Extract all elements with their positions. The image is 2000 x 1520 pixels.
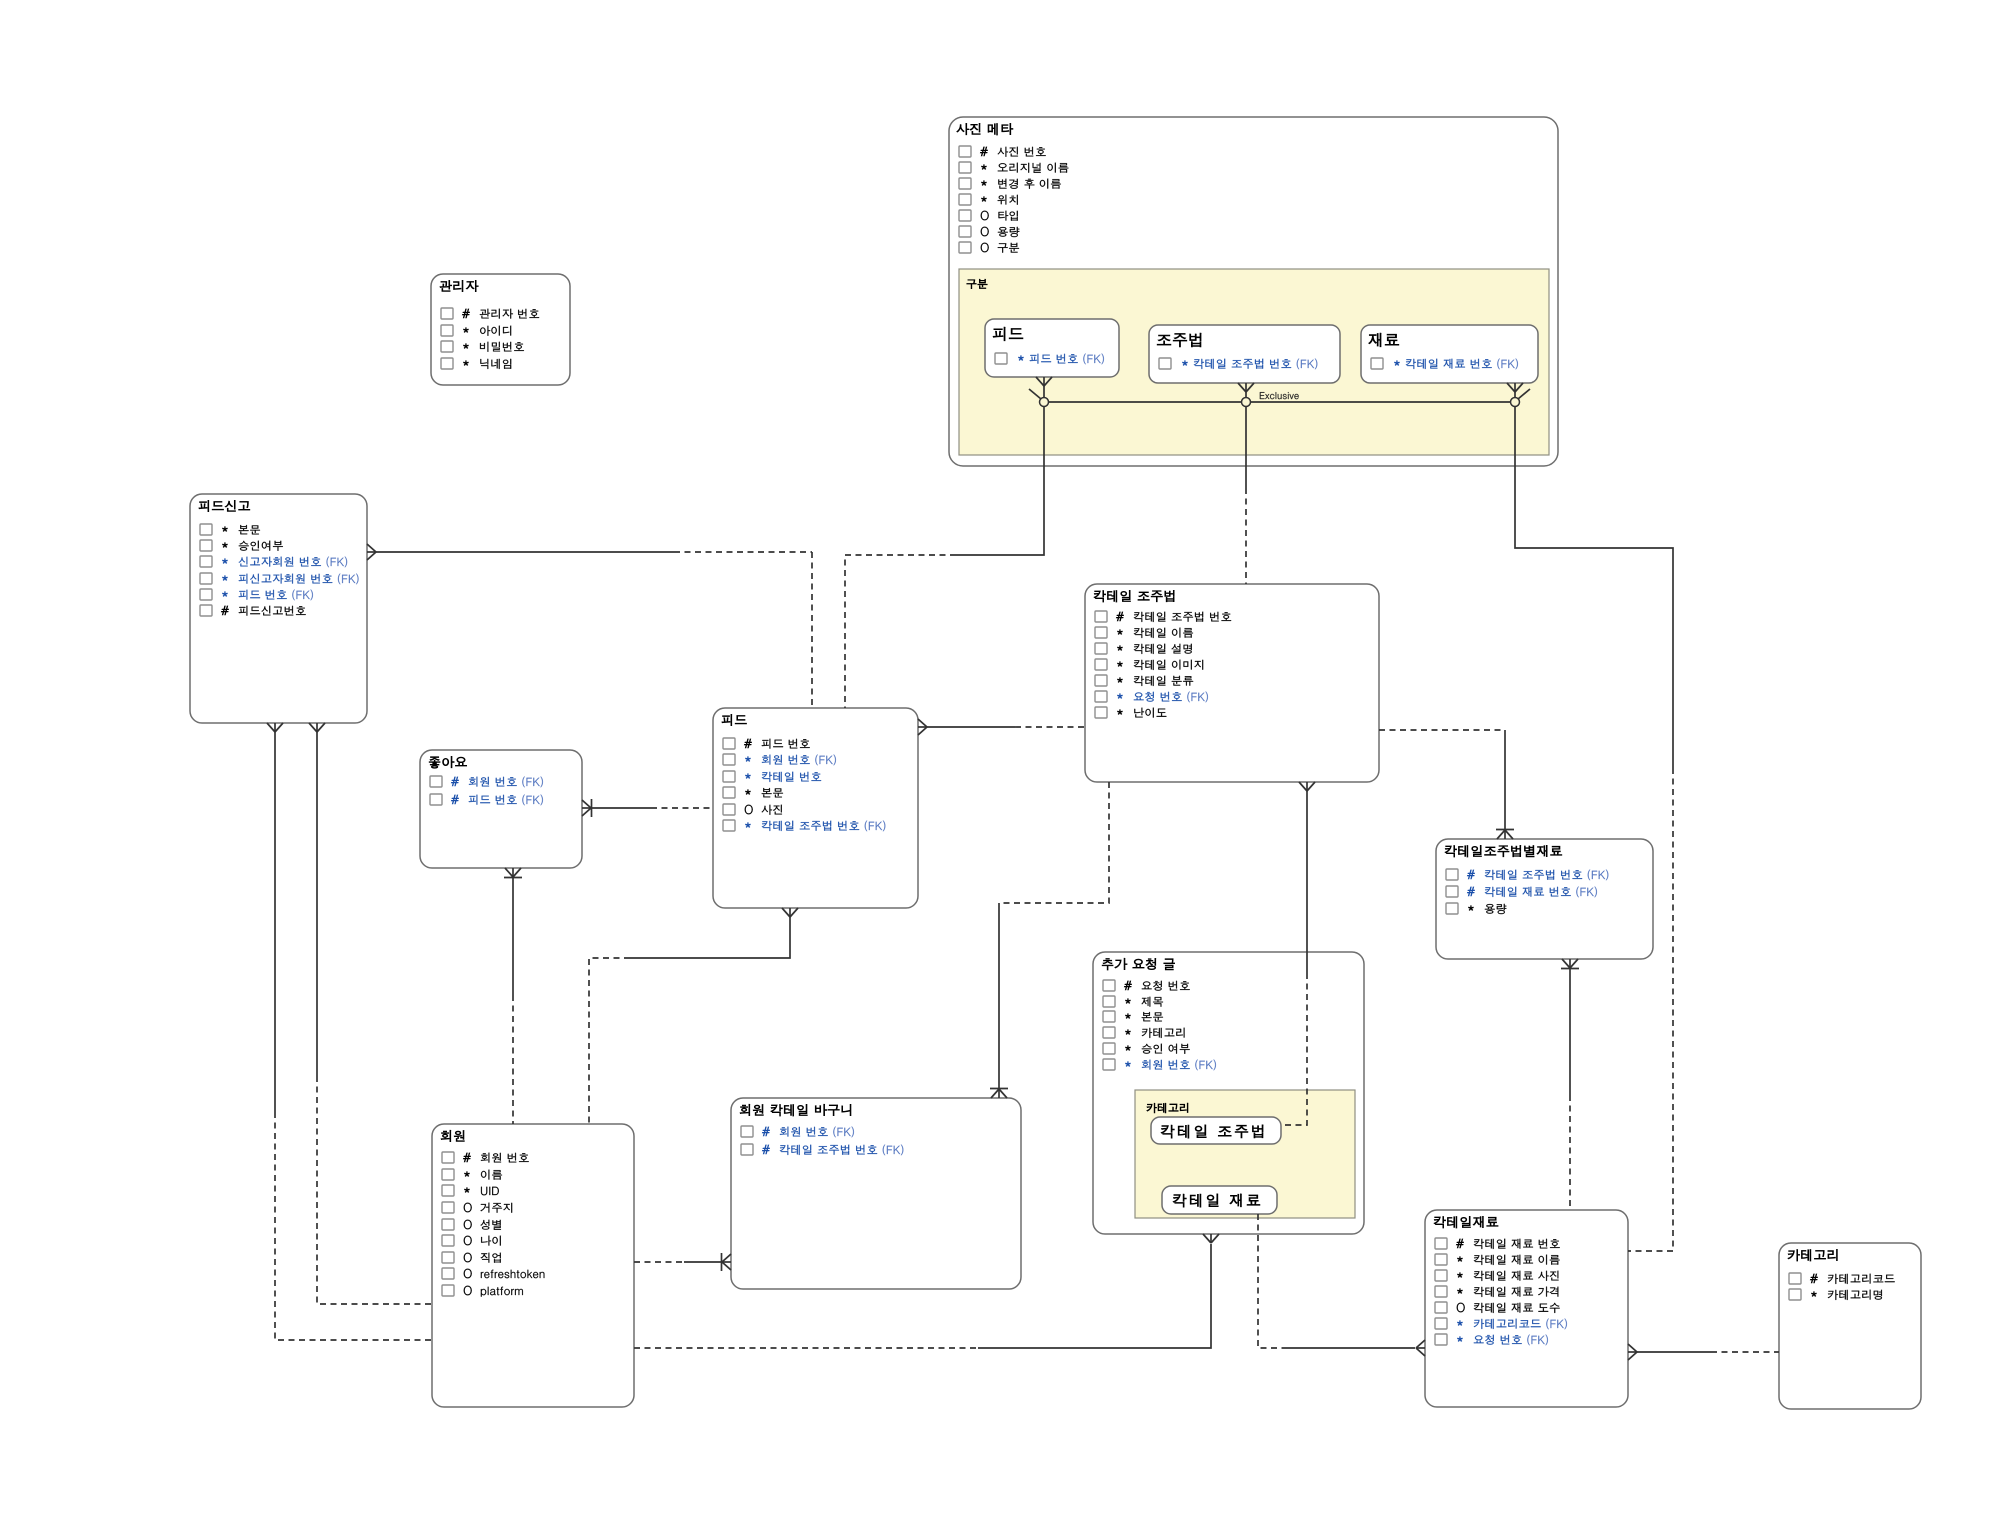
- container 구분 (yellow): [959, 269, 1549, 455]
- relationship 회원-회원칵테일바구니: [634, 1253, 731, 1271]
- relationship 회원-추가요청글: [634, 1234, 1219, 1348]
- entity 좋아요: [420, 750, 582, 868]
- relationship 칵테일조주법-회원칵테일바구니: [990, 782, 1109, 1098]
- relationship 칵테일조주법-추가요청글(카테고리 arc): [1281, 782, 1315, 1125]
- entity 회원 칵테일 바구니: [731, 1098, 1021, 1289]
- relationship 칵테일조주법별재료-칵테일재료: [1561, 959, 1579, 1210]
- sub-entity 조주법(사진): [1149, 325, 1340, 383]
- entity 관리자: [431, 274, 570, 385]
- sub-entity 재료(사진): [1361, 325, 1538, 383]
- relationship 좋아요-피드: [582, 799, 713, 817]
- relationship 피드신고-피드: [367, 544, 812, 708]
- entity 칵테일조주법별재료: [1436, 839, 1653, 959]
- relationship 사진메타(재료)-칵테일재료: [1507, 383, 1673, 1251]
- entity 카테고리: [1779, 1243, 1921, 1409]
- container 카테고리 (yellow): [1135, 1090, 1355, 1218]
- relationship 사진메타(피드)-피드: [845, 377, 1052, 708]
- relationship 칵테일조주법-칵테일조주법별재료: [1379, 730, 1514, 839]
- entity 피드신고: [190, 494, 367, 723]
- arc target 칵테일 재료: [1162, 1186, 1277, 1214]
- entity 추가 요청 글: [1093, 952, 1364, 1234]
- relationship 칵테일재료-카테고리: [1628, 1344, 1779, 1360]
- relationship 피드-회원: [589, 908, 798, 1124]
- sub-entity 피드(사진): [985, 319, 1119, 377]
- entity 사진 메타: [949, 117, 1558, 466]
- relationship 피드신고-회원 (피신고자): [309, 723, 432, 1304]
- relationship 피드-칵테일조주법: [918, 719, 1085, 735]
- entity 칵테일재료: [1425, 1210, 1628, 1407]
- relationship 피드신고-회원 (신고자): [267, 723, 432, 1340]
- entity 피드: [713, 708, 918, 908]
- entity 칵테일 조주법: [1085, 584, 1379, 782]
- entity 회원: [432, 1124, 634, 1407]
- exclusive arc: [1029, 389, 1530, 407]
- relationship 추가요청글(카테고리 arc)-칵테일재료: [1258, 1214, 1425, 1356]
- relationship 좋아요-회원: [504, 868, 522, 1124]
- arc target 칵테일 조주법: [1151, 1117, 1281, 1144]
- relationship 사진메타(조주법)-칵테일조주법: [1238, 383, 1254, 584]
